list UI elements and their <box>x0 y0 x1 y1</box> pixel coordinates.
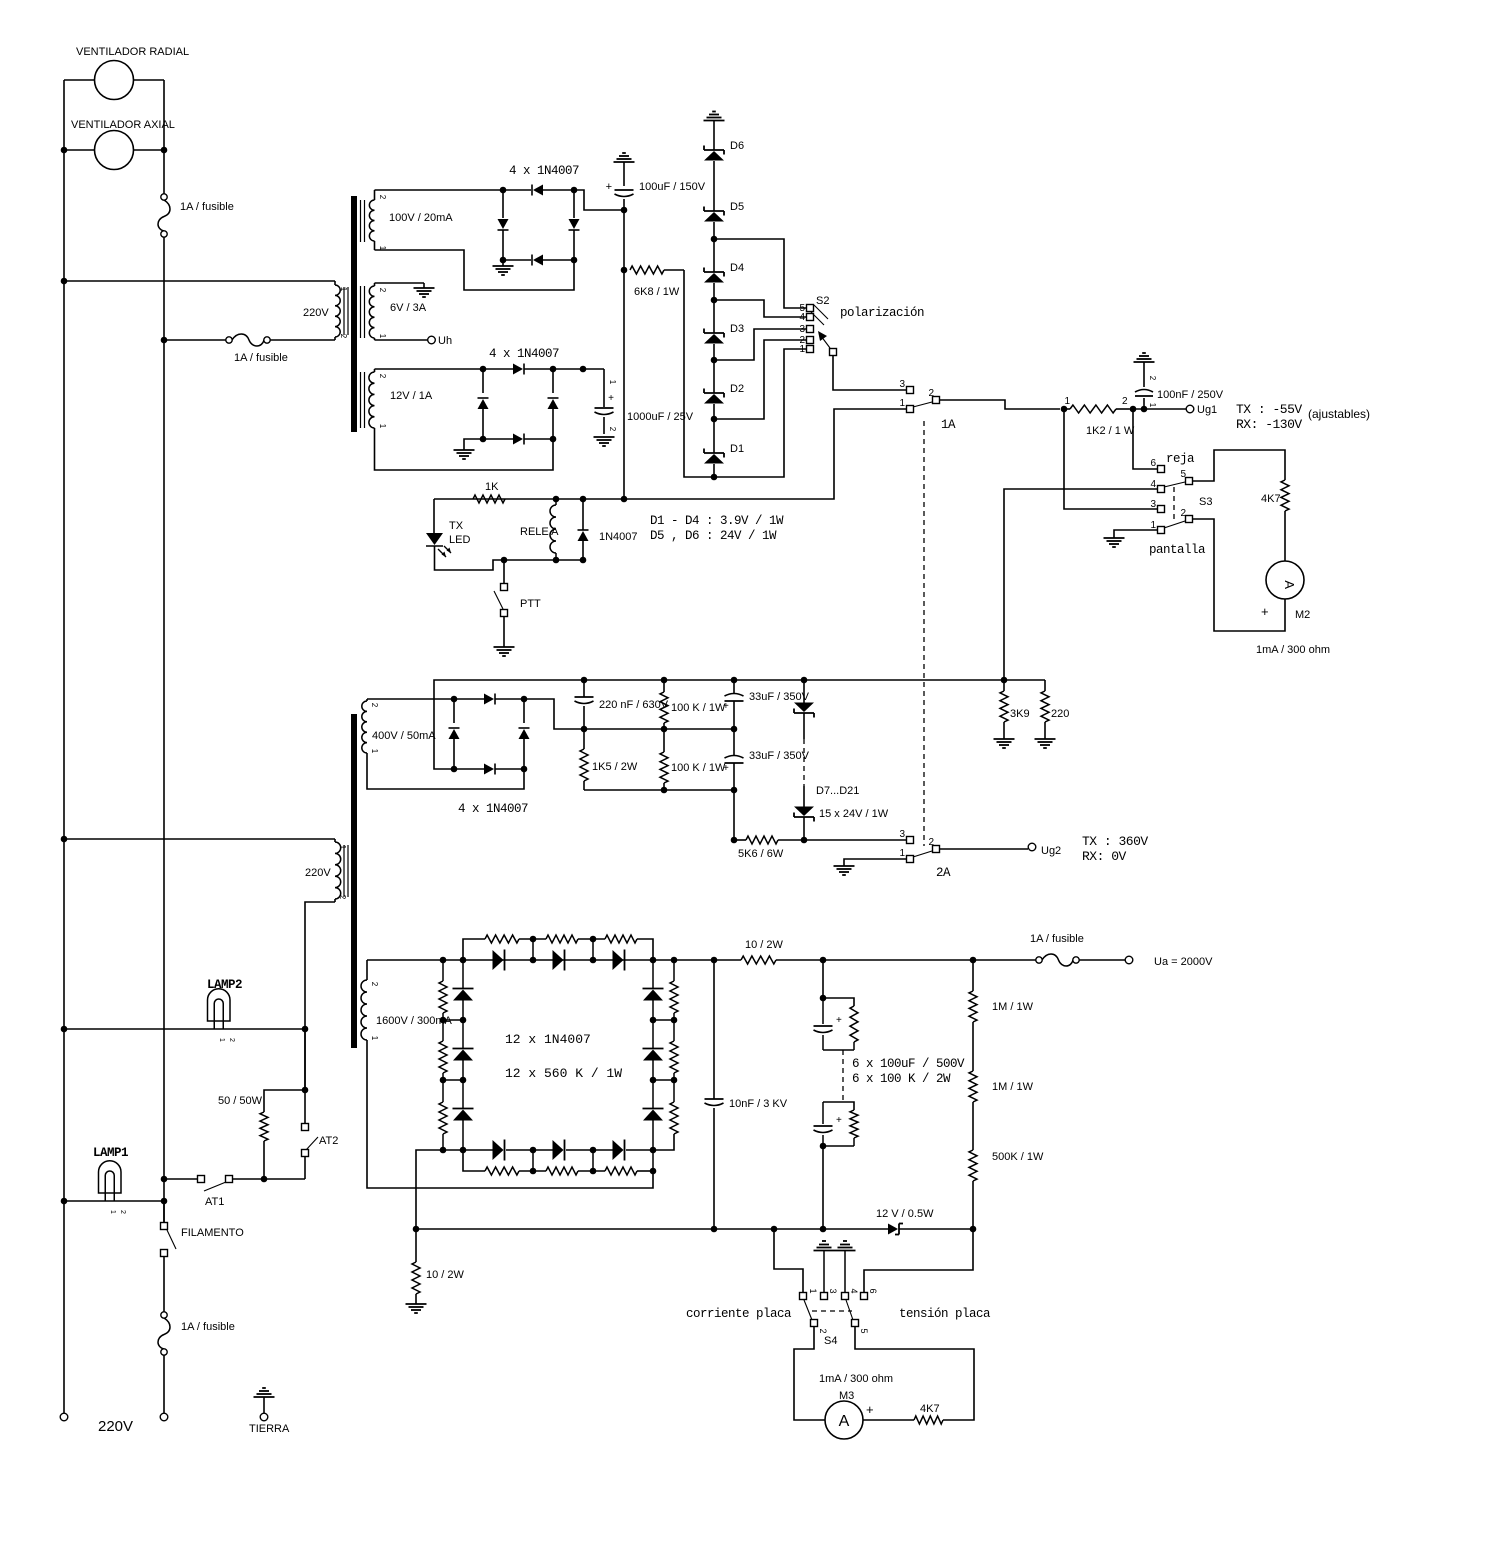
ground S3 <box>1104 538 1125 547</box>
svg-text:Ug1: Ug1 <box>1197 404 1217 416</box>
svg-text:6 x 100uF / 500V: 6 x 100uF / 500V <box>852 1057 965 1071</box>
wire 100nF node to S3-6 <box>1133 409 1157 469</box>
dashed relay link 1A-2A <box>923 421 925 846</box>
svg-text:Uh: Uh <box>438 335 452 347</box>
wire bias rail C1 to 6K8 <box>623 210 625 270</box>
diode bridge B right <box>548 369 559 439</box>
svg-text:33uF / 350V: 33uF / 350V <box>749 750 810 762</box>
wire mid rail <box>584 728 734 730</box>
capacitor C3 label <box>1157 389 1224 401</box>
zener D3 label <box>730 323 744 335</box>
svg-text:1: 1 <box>899 398 905 409</box>
resistor 5K6/6W <box>734 836 804 844</box>
switch S3 arms <box>1164 482 1185 528</box>
svg-text:1: 1 <box>1148 403 1157 408</box>
svg-text:6K8 / 1W: 6K8 / 1W <box>634 286 680 298</box>
zener D2 label <box>730 383 744 395</box>
ring top diode 3 <box>613 950 625 971</box>
svg-text:AT2: AT2 <box>319 1135 338 1147</box>
wire AT1 row <box>164 1178 197 1180</box>
svg-text:FILAMENTO: FILAMENTO <box>181 1227 244 1239</box>
winding 1600V/300mA <box>361 960 379 1041</box>
wire 6V pin1 to Uh <box>375 339 429 341</box>
diode bridge C top <box>454 694 524 705</box>
transformer T2 core <box>351 714 357 1048</box>
winding 400V/50mA <box>362 699 379 756</box>
terminal TIERRA <box>260 1413 268 1421</box>
bridge C label 4 x 1N4007 <box>458 802 528 816</box>
svg-text:10 / 2W: 10 / 2W <box>745 939 784 951</box>
node relay feed <box>580 366 587 373</box>
resistor 6K8/1W <box>630 266 684 274</box>
svg-text:2A: 2A <box>936 866 951 880</box>
wire HV top rail <box>367 959 717 961</box>
node ring BR inner <box>650 1147 657 1154</box>
wire 1A-2 to 1K2 <box>940 400 1060 409</box>
switch S4 label <box>824 1335 837 1347</box>
transformer T2 primary 220V winding <box>335 839 348 902</box>
wire 12V pin2 to bridge B <box>375 368 484 370</box>
svg-text:2: 2 <box>228 1038 235 1042</box>
svg-text:3: 3 <box>828 1288 838 1293</box>
resistor 1K5 label <box>592 761 638 773</box>
meter M2 plus label <box>1261 604 1269 619</box>
svg-text:A: A <box>1282 580 1297 589</box>
svg-text:33uF / 350V: 33uF / 350V <box>749 691 810 703</box>
wire ring minus out <box>416 1150 443 1229</box>
winding 1600V label <box>376 1015 452 1027</box>
resistor 4K7 M3 label <box>920 1403 940 1415</box>
svg-text:15 x 24V / 1W: 15 x 24V / 1W <box>819 808 889 820</box>
wire LED to relay bottom row <box>435 546 584 570</box>
svg-text:4: 4 <box>849 1288 859 1293</box>
resistor 1K5/2W <box>580 729 588 790</box>
svg-text:5: 5 <box>1180 469 1186 480</box>
wire 1K2 to Ug1 <box>1129 408 1186 410</box>
label pantalla <box>1149 543 1206 557</box>
wire M3 left loop <box>794 1326 825 1420</box>
label corriente placa <box>686 1307 792 1321</box>
ground TIERRA symbol <box>254 1388 275 1413</box>
zener D21 bottom of chain <box>794 786 814 840</box>
node bridge C BR <box>521 766 528 773</box>
svg-text:1: 1 <box>799 344 805 355</box>
node ring BL inner <box>460 1147 467 1154</box>
chassis symbol common bar <box>814 1250 856 1252</box>
svg-text:100nF / 250V: 100nF / 250V <box>1157 389 1224 401</box>
fuse F3 label <box>181 1321 235 1333</box>
fuse F2 1A horizontal <box>164 334 335 346</box>
label 6 x 100K <box>852 1072 951 1086</box>
svg-text:RX: 0V: RX: 0V <box>1082 849 1127 864</box>
svg-text:+: + <box>836 1115 842 1126</box>
dashed chain D7-D21 <box>803 739 805 786</box>
wire primary2 pin2 down <box>305 902 335 1090</box>
svg-text:1: 1 <box>218 1038 225 1042</box>
svg-text:+: + <box>1261 604 1269 619</box>
svg-text:TX : 360V: TX : 360V <box>1082 834 1148 849</box>
svg-text:corriente placa: corriente placa <box>686 1307 792 1321</box>
node bottom rail 33uF <box>731 787 738 794</box>
ring bottom diode row wires2 <box>528 1149 613 1151</box>
switch 1A label <box>941 418 956 432</box>
svg-text:500K / 1W: 500K / 1W <box>992 1151 1044 1163</box>
svg-text:1M / 1W: 1M / 1W <box>992 1081 1034 1093</box>
svg-text:1: 1 <box>378 424 387 429</box>
svg-text:5K6 / 6W: 5K6 / 6W <box>738 848 784 860</box>
svg-text:12V / 1A: 12V / 1A <box>390 390 433 402</box>
bridge A label 4 x 1N4007 <box>509 164 579 178</box>
switch S2 contacts <box>807 305 814 353</box>
wire bridge C minus to HT rail <box>434 680 1045 769</box>
svg-text:+: + <box>606 181 612 193</box>
switch S3 contact 6 <box>1150 458 1164 473</box>
svg-text:1: 1 <box>370 749 379 754</box>
switch 2A contact 1 <box>899 848 913 863</box>
node bridge B TR <box>550 366 557 373</box>
node C1 out <box>621 207 628 214</box>
zener D3 <box>704 329 724 394</box>
svg-text:2: 2 <box>1180 508 1186 519</box>
resistor 100K/1W upper <box>660 680 668 729</box>
svg-text:pantalla: pantalla <box>1149 543 1206 557</box>
switch 2A contact 2 <box>928 837 939 853</box>
node flyback top <box>580 496 587 503</box>
ground cap C2 <box>594 437 615 446</box>
chassis symbol S4-4 <box>838 1241 853 1293</box>
svg-text:2: 2 <box>370 982 379 987</box>
wire bridge A output <box>574 190 624 210</box>
switch S3 contact 2 <box>1180 508 1192 523</box>
capacitor 220nF/630V <box>575 680 594 729</box>
svg-text:PTT: PTT <box>520 598 541 610</box>
switch AT2 label <box>319 1135 338 1147</box>
node bridge A BL <box>500 257 507 264</box>
label 1M/1W upper <box>992 1001 1034 1013</box>
LED labels TX LED <box>449 520 470 546</box>
node ring TL inner <box>460 957 467 964</box>
wire 400V pin2 to bridge C <box>367 698 454 700</box>
fuse F4 label <box>1030 933 1084 945</box>
node bridge B BL <box>480 436 487 443</box>
node HT rail 220nF <box>581 677 588 684</box>
node flyback bottom <box>580 557 587 564</box>
svg-text:2: 2 <box>1122 396 1128 407</box>
wire tap5 to S2-5 <box>714 239 806 308</box>
wire tap2 to S2-2 <box>714 340 806 419</box>
chain labels D7...D21 <box>816 785 859 797</box>
transformer T2 primary label 220V <box>305 867 331 879</box>
svg-text:4K7: 4K7 <box>1261 493 1281 505</box>
node ring bottom 2 <box>590 1147 597 1154</box>
node AT1 left <box>161 1176 168 1183</box>
wire 33uF bottom to 5K6 row <box>733 790 735 840</box>
svg-text:3: 3 <box>899 379 905 390</box>
switch S4 contact 3 <box>821 1288 839 1299</box>
svg-text:1K: 1K <box>485 481 499 493</box>
winding 6V/3A label <box>390 302 427 314</box>
svg-text:220V: 220V <box>305 867 331 879</box>
resistor 10/2W shunt <box>412 1229 420 1304</box>
svg-text:2: 2 <box>338 895 347 900</box>
svg-text:50 / 50W: 50 / 50W <box>218 1095 263 1107</box>
node 100nF bottom <box>1130 406 1148 413</box>
svg-text:220: 220 <box>1051 708 1069 720</box>
transformer T1 primary label 220V <box>303 307 329 319</box>
switch S3 contact 1 <box>1150 520 1164 534</box>
wire stack bottom <box>822 1146 824 1229</box>
ring left link 2 <box>440 1077 467 1084</box>
resistor 220 label <box>1051 708 1069 720</box>
LED TX indicator <box>426 533 451 557</box>
wire 6V pin2 to ground <box>375 283 425 288</box>
svg-text:2: 2 <box>378 195 387 200</box>
wire fuse to Ua <box>1079 959 1125 961</box>
svg-text:1mA / 300 ohm: 1mA / 300 ohm <box>819 1373 893 1385</box>
label TX -55V <box>1236 402 1302 417</box>
switch S2 contact labels <box>799 303 805 355</box>
svg-text:220V: 220V <box>98 1418 133 1435</box>
node bridge A TL <box>500 187 507 194</box>
lamp LAMP1 label <box>93 1146 128 1160</box>
node HT rail 100K <box>661 677 668 684</box>
node fan left junction <box>61 147 68 154</box>
node right rail 340 <box>161 337 168 344</box>
fan VENTILADOR RADIAL label <box>76 46 189 58</box>
diode bridge C left <box>449 699 460 769</box>
node bridge A TR <box>571 187 578 194</box>
switch S4 pivot labels <box>818 1328 869 1333</box>
chain label 15 x 24V / 1W <box>819 808 889 820</box>
label tension placa <box>899 1307 991 1321</box>
ground 10/2W shunt <box>406 1304 427 1313</box>
zener D5 label <box>730 201 744 213</box>
resistor 100K lower label <box>671 762 726 774</box>
node mid rail 100K <box>661 726 668 733</box>
label RX 0V <box>1082 849 1127 864</box>
node bottom rail 100K <box>661 787 668 794</box>
winding 6V/3A <box>361 283 388 340</box>
ring top row cross links <box>533 939 593 960</box>
switch FILAMENTO label <box>181 1227 244 1239</box>
switch FILAMENTO <box>161 1201 177 1312</box>
wire S4 contact1 feed <box>774 1229 803 1293</box>
capacitor C3 100nF/250V <box>1135 362 1157 409</box>
wire 2A-2 to Ug2 <box>940 848 1028 850</box>
svg-text:220 nF / 630V: 220 nF / 630V <box>599 699 669 711</box>
svg-text:10 / 2W: 10 / 2W <box>426 1269 465 1281</box>
chassis symbol S4-3 <box>817 1241 832 1293</box>
svg-text:RX: -130V: RX: -130V <box>1236 417 1302 432</box>
switch S3 gang dashed <box>1173 487 1175 519</box>
ground PTT <box>494 647 515 656</box>
svg-text:1A: 1A <box>941 418 956 432</box>
wire stack top <box>822 960 824 998</box>
svg-text:1N4007: 1N4007 <box>599 531 638 543</box>
svg-text:1: 1 <box>378 334 387 339</box>
switch S4 arm B <box>846 1300 859 1327</box>
wire S3-1 to ground <box>1114 530 1157 538</box>
node 5K6 left <box>731 837 738 844</box>
svg-text:1A / fusible: 1A / fusible <box>234 352 288 364</box>
resistor 4K7 M2 label <box>1261 493 1281 505</box>
wire LAMP1 row <box>64 1200 164 1202</box>
diode flyback label 1N4007 <box>599 531 638 543</box>
wire tap3 to S2-3 <box>714 329 806 360</box>
resistor 1M/1W upper <box>969 960 977 1071</box>
fan VENTILADOR AXIAL label <box>71 119 175 131</box>
wire bias rail down to relay row <box>623 270 625 499</box>
wire 5K6 to switch 2A <box>804 839 906 841</box>
wire tap4 to S2-4 <box>714 300 806 317</box>
resistor 10/2W shunt label <box>426 1269 465 1281</box>
svg-text:polarización: polarización <box>840 306 924 320</box>
zener D2 <box>704 389 724 454</box>
svg-text:2: 2 <box>818 1328 828 1333</box>
zener 12V/0.5W <box>888 1224 903 1235</box>
diode D flyback 1N4007 <box>578 499 589 560</box>
relay label RELE A <box>520 526 559 538</box>
label RX -130V <box>1236 417 1302 432</box>
wire divider bottom rail <box>584 789 734 791</box>
svg-text:100uF / 150V: 100uF / 150V <box>639 181 706 193</box>
wire 1K to LED <box>433 499 435 533</box>
svg-text:2: 2 <box>339 334 348 339</box>
node ring bottom R junctions <box>530 1168 657 1175</box>
lamp LAMP2 <box>208 989 236 1042</box>
wire S2 common to SW-TXRX <box>833 356 906 390</box>
svg-text:(ajustables): (ajustables) <box>1308 407 1370 421</box>
svg-text:100V / 20mA: 100V / 20mA <box>389 212 453 224</box>
wire phase to primary1 pin1 <box>64 280 335 282</box>
node rail S4-1 tap <box>771 1226 778 1233</box>
lamp LAMP2 label <box>207 978 242 992</box>
wire bridge B output to C2 <box>553 368 604 370</box>
svg-text:S4: S4 <box>824 1335 837 1347</box>
node stack pair2 bottom <box>820 1143 827 1150</box>
svg-text:2: 2 <box>370 703 379 708</box>
meter M2 rating label <box>1256 644 1330 656</box>
svg-text:+: + <box>836 1015 842 1026</box>
wire bridge C plus out <box>524 699 584 729</box>
svg-text:1: 1 <box>808 1288 818 1293</box>
zener D4 label <box>730 262 744 274</box>
node HT+ 10/2W <box>711 957 718 964</box>
node AT1 out <box>261 1176 268 1183</box>
relay coil RELE A <box>550 499 556 560</box>
svg-text:2: 2 <box>1148 376 1157 381</box>
svg-text:3K9: 3K9 <box>1010 708 1030 720</box>
switch 1A contact 3 <box>899 379 913 394</box>
svg-text:1K2 / 1 W: 1K2 / 1 W <box>1086 425 1135 437</box>
ground 220 <box>1035 739 1056 748</box>
switch S2 label <box>816 295 829 307</box>
resistor 1K2/1W <box>1064 396 1129 413</box>
svg-text:M3: M3 <box>839 1390 854 1402</box>
node bridge B BR <box>550 436 557 443</box>
wire 100V pin1 loop <box>375 250 575 290</box>
node HT rail S3 feed <box>1001 677 1008 684</box>
diode bridge A left <box>498 190 509 260</box>
zener D1 label <box>730 443 744 455</box>
node cap stack top <box>820 957 827 964</box>
resistor 220 <box>1041 680 1049 739</box>
label polarizacion <box>840 306 924 320</box>
svg-text:reja: reja <box>1166 452 1195 466</box>
diode bridge B left <box>478 369 489 439</box>
node ring top 1 <box>530 957 537 964</box>
svg-text:+: + <box>723 701 729 712</box>
svg-text:12 V / 0.5W: 12 V / 0.5W <box>876 1208 934 1220</box>
svg-text:D1 - D4 : 3.9V / 1W: D1 - D4 : 3.9V / 1W <box>650 514 784 528</box>
node LAMP2 left <box>61 1026 68 1033</box>
node relay coil top <box>553 496 560 503</box>
ground zener chain top <box>704 112 725 151</box>
switch S4 contact 1 <box>800 1288 819 1299</box>
label 1M/1W lower <box>992 1081 1034 1093</box>
wire bottom rail left <box>416 1228 888 1230</box>
winding 12V/1A label <box>390 390 433 402</box>
resistor 3K9 label <box>1010 708 1030 720</box>
resistor 5K6 label <box>738 848 784 860</box>
switch 1A contact 1 <box>899 398 913 413</box>
terminal Ua <box>1125 956 1213 968</box>
svg-text:2: 2 <box>928 388 934 399</box>
node ring bottom 1 <box>530 1147 537 1154</box>
fuse F1 1A vertical <box>158 194 170 237</box>
resistor 4K7 M3 <box>914 1416 943 1424</box>
ring right diode column <box>643 960 664 1150</box>
winding 400V label <box>372 730 436 742</box>
wire right AC rail top <box>163 80 165 194</box>
capacitor 220nF label <box>599 699 669 711</box>
capacitor C1 100uF/150V <box>606 181 634 207</box>
svg-text:1: 1 <box>1064 396 1070 407</box>
wire HV pin1 outer loop <box>367 1040 653 1188</box>
node rail 10nF <box>711 1226 718 1233</box>
ring left resistor column <box>439 960 447 1150</box>
wire M3 right loop <box>855 1326 974 1420</box>
svg-text:VENTILADOR AXIAL: VENTILADOR AXIAL <box>71 119 175 131</box>
diode bridge A bottom <box>503 255 574 266</box>
diode bridge B top <box>483 364 553 375</box>
label TIERRA <box>249 1423 290 1435</box>
svg-text:+: + <box>866 1402 874 1417</box>
svg-text:RELE A: RELE A <box>520 526 559 538</box>
node mid rail left <box>581 726 588 733</box>
svg-text:1M / 1W: 1M / 1W <box>992 1001 1034 1013</box>
svg-text:2: 2 <box>378 374 387 379</box>
terminal Ug2 <box>1028 843 1061 857</box>
node 1K2 left <box>1061 406 1068 413</box>
switch 2A contact 3 <box>899 829 913 844</box>
zener D6 label <box>730 140 744 152</box>
switch S3 contact 3 <box>1150 499 1164 513</box>
node bridge C TR <box>521 696 528 703</box>
diode bridge A top <box>503 185 574 196</box>
svg-text:LED: LED <box>449 534 470 546</box>
fan VENTILADOR RADIAL <box>64 61 164 100</box>
label 6 x 100uF <box>852 1057 965 1071</box>
fuse F4 1A HV <box>1036 954 1079 966</box>
ring right resistor column <box>653 960 678 1150</box>
svg-text:1: 1 <box>370 1036 379 1041</box>
svg-text:AT1: AT1 <box>205 1196 224 1208</box>
resistor 50/50W label <box>218 1095 263 1107</box>
svg-text:1: 1 <box>338 845 347 850</box>
svg-text:2: 2 <box>119 1210 126 1214</box>
svg-text:D1: D1 <box>730 443 744 455</box>
